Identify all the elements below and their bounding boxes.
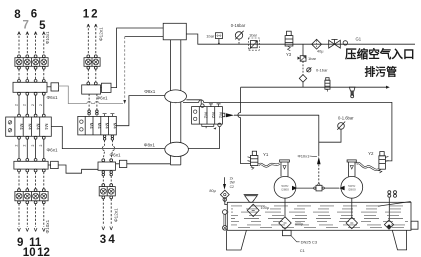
solenoid valve Y1 bbox=[248, 151, 269, 169]
svg-text:M4: M4 bbox=[89, 123, 94, 130]
water pipe frame: top and right edge down to Y2 feed bbox=[183, 100, 392, 161]
main sampling pipe column bbox=[170, 40, 180, 165]
svg-text:M4: M4 bbox=[44, 124, 49, 131]
svg-text:Φ6x1: Φ6x1 bbox=[97, 95, 109, 100]
hose couplings quad circles bbox=[388, 191, 397, 221]
ball valve on air line bbox=[329, 39, 341, 48]
wire M4 output to ellipse1 left, pipe label phi8x1 bbox=[116, 96, 165, 126]
connector circles below manifold2-lower bbox=[102, 171, 113, 187]
water pressure gauge 0-1.6bar bbox=[319, 116, 354, 143]
svg-text:0-1bar: 0-1bar bbox=[316, 67, 328, 72]
dashed drops valve row A to manifold1 bbox=[19, 69, 44, 79]
svg-text:Φ10x1: Φ10x1 bbox=[45, 219, 50, 233]
svg-text:Φ8x1: Φ8x1 bbox=[144, 142, 156, 147]
wire manifold2 box to selector box input1 bbox=[111, 28, 163, 88]
svg-text:2: 2 bbox=[39, 104, 43, 106]
svg-text:2: 2 bbox=[23, 104, 27, 106]
flex hose pump2 to Y2 bbox=[356, 163, 378, 170]
svg-text:M4: M4 bbox=[97, 123, 102, 130]
dashed drops group2 valves to manifold2 bbox=[88, 69, 96, 82]
manifold M2 outlet box bbox=[101, 83, 112, 92]
svg-text:Φ6x1: Φ6x1 bbox=[47, 95, 59, 100]
svg-text:M4: M4 bbox=[27, 124, 32, 131]
svg-text:1bar: 1bar bbox=[308, 56, 317, 61]
pump P2 suction pipe bbox=[347, 160, 356, 177]
valve row B group1: 4 shutoff valves bbox=[15, 189, 48, 204]
svg-text:排污管: 排污管 bbox=[365, 65, 398, 79]
svg-text:M2: M2 bbox=[211, 112, 216, 119]
svg-text:2: 2 bbox=[14, 145, 18, 147]
svg-text:2: 2 bbox=[14, 104, 18, 106]
tubes meter row1 to manifold M2 lower bbox=[18, 139, 46, 161]
compressed air line main bbox=[186, 34, 415, 44]
pressure regulator 1bar branch bbox=[298, 56, 317, 62]
pump2 drop line and filter F3 bbox=[346, 198, 357, 229]
svg-text:Φ8x1: Φ8x1 bbox=[144, 89, 156, 94]
svg-text:/2800: /2800 bbox=[281, 188, 289, 192]
svg-text:8: 8 bbox=[14, 9, 21, 21]
svg-text:12: 12 bbox=[37, 247, 50, 257]
wire M2 row outlet down to ellipse2 right tap bbox=[188, 127, 219, 149]
svg-text:4: 4 bbox=[108, 234, 115, 246]
branch dashed with gauge tap 0-1bar bbox=[303, 61, 328, 75]
flow meter row M2 bbox=[192, 104, 224, 130]
svg-text:Y2: Y2 bbox=[368, 151, 374, 156]
svg-text:DN25 C3: DN25 C3 bbox=[301, 240, 318, 245]
branch to drain line bbox=[302, 44, 304, 56]
M2 row outlet port and arrow to water line bbox=[222, 113, 318, 117]
svg-text:1bar: 1bar bbox=[249, 33, 258, 38]
manifold M1 lower bbox=[14, 161, 48, 172]
manifold M2 lower bbox=[98, 162, 116, 170]
outlet lines group1 bottom with down arrows bbox=[18, 204, 46, 232]
pump1 drop line and filter F2 400u bbox=[279, 198, 304, 229]
junction ellipse node J2 bbox=[165, 142, 189, 156]
sample line 1 with up arrow bbox=[87, 24, 90, 55]
pump1 outlet arrow bbox=[292, 186, 297, 191]
svg-text:C2: C2 bbox=[230, 185, 234, 189]
manifold M2 upper bbox=[82, 82, 101, 94]
svg-text:压缩空气入口: 压缩空气入口 bbox=[345, 47, 415, 61]
svg-text:2: 2 bbox=[31, 145, 35, 147]
tank drain fitting DN25 bbox=[282, 230, 317, 253]
svg-text:Φ6x1: Φ6x1 bbox=[47, 147, 59, 152]
outlet lines 3,4 with down arrows bbox=[102, 199, 113, 230]
svg-text:M2: M2 bbox=[203, 112, 208, 119]
pipe end fitting circle bbox=[343, 41, 347, 45]
tank level gauge bbox=[223, 198, 229, 231]
pressure gauge 0-16bar bbox=[231, 23, 246, 44]
svg-text:6: 6 bbox=[31, 9, 37, 21]
svg-text:M4: M4 bbox=[36, 124, 41, 131]
svg-text:Y3: Y3 bbox=[286, 52, 292, 57]
dashed drops manifold2 to M4 row with connector circles bbox=[88, 94, 98, 115]
selector box U1 bbox=[163, 23, 186, 40]
wire lower manifold1 to group2 lower manifold bbox=[58, 165, 98, 173]
solenoid vent valve on drain line bbox=[325, 78, 330, 92]
pilot component on air line bbox=[206, 33, 222, 45]
svg-text:2: 2 bbox=[23, 145, 27, 147]
svg-text:1bar: 1bar bbox=[206, 34, 215, 39]
svg-text:2: 2 bbox=[31, 104, 35, 106]
tank water level dashes bbox=[231, 206, 408, 228]
dashed return line to group1 with down arrow bbox=[123, 37, 126, 104]
svg-text:0-16bar: 0-16bar bbox=[231, 23, 246, 28]
svg-text:/2800: /2800 bbox=[348, 188, 356, 192]
flow meter row 1 bbox=[6, 117, 52, 139]
sample line 6 with up arrow bbox=[34, 32, 37, 55]
sample line 7 with up arrow bbox=[26, 32, 29, 55]
svg-text:Φ10x1: Φ10x1 bbox=[298, 154, 311, 159]
svg-text:7: 7 bbox=[22, 19, 28, 31]
junction ellipse node J1 bbox=[165, 90, 187, 103]
sample line 2 with up arrow bbox=[94, 24, 97, 55]
svg-text:400μ: 400μ bbox=[295, 222, 304, 226]
drain outlet fitting bbox=[349, 87, 355, 98]
flex hose Y1 to pump1 bbox=[258, 164, 279, 167]
svg-text:100μ: 100μ bbox=[261, 206, 270, 210]
tank leg right bbox=[392, 230, 406, 250]
filter 40u on air line bbox=[312, 39, 324, 53]
pump P2 bbox=[341, 176, 363, 198]
filling funnel on tank bbox=[244, 194, 259, 202]
heater assembly 2x3W bbox=[209, 176, 235, 202]
manifold M1 outlet box bbox=[47, 83, 59, 91]
svg-text:G1: G1 bbox=[356, 36, 362, 41]
valve row group2 top: 2 shutoff valves bbox=[84, 55, 100, 69]
filter F4 with foot valve bbox=[384, 220, 393, 229]
svg-text:3: 3 bbox=[100, 234, 106, 246]
wire meter row1 output to ellipse2 left bbox=[51, 127, 165, 149]
wire manifold2-lower box to main pipe bottom bbox=[127, 163, 171, 165]
svg-text:2: 2 bbox=[39, 145, 43, 147]
svg-text:40μ: 40μ bbox=[317, 50, 323, 54]
dashed drops M4 bottom to manifold2-lower with hop loops bbox=[102, 135, 115, 162]
svg-text:1: 1 bbox=[83, 9, 90, 21]
pump P1 suction pipe bbox=[280, 160, 290, 177]
svg-text:80μ: 80μ bbox=[209, 189, 215, 193]
solenoid valve Y2 bbox=[368, 151, 388, 173]
manifold M2 lower outlet box bbox=[116, 160, 127, 167]
pump2 outlet arrow bbox=[339, 186, 344, 191]
wire ellipse1 right tap to M2 row inlet bbox=[186, 100, 204, 108]
pump P1 bbox=[274, 176, 296, 198]
wire selector box input2 bbox=[125, 36, 164, 38]
svg-text:2: 2 bbox=[91, 9, 97, 21]
drain distribution line with end arrow bbox=[241, 86, 390, 89]
valve row A group1: 4 shutoff valves bbox=[15, 55, 48, 69]
water tank body bbox=[227, 202, 418, 231]
air pipe from frame corner down to Y1 feed (with hop) bbox=[238, 87, 251, 163]
pressure regulator 1bar on air line bbox=[248, 33, 259, 51]
sample line 8 with up arrow bbox=[18, 32, 21, 55]
svg-text:Φ12x1: Φ12x1 bbox=[114, 208, 119, 222]
dashed drops manifold1-lower to valve row B bbox=[19, 172, 44, 189]
tank leg left bbox=[227, 230, 247, 250]
sample line 5 with up arrow bbox=[42, 32, 45, 55]
center water feed with up arrow and label phi10x1 bbox=[298, 115, 321, 185]
flow meter row M4 bbox=[78, 114, 118, 135]
tube number 2 labels row1 lower bbox=[14, 145, 43, 147]
filter F1 100u in tank bbox=[247, 204, 269, 216]
svg-text:Y1: Y1 bbox=[263, 152, 269, 157]
svg-text:5: 5 bbox=[39, 20, 46, 32]
svg-text:Φ12x1: Φ12x1 bbox=[98, 27, 103, 41]
svg-text:0-1.6bar: 0-1.6bar bbox=[338, 116, 354, 121]
tubes manifold1 to meter row1 bbox=[18, 95, 46, 117]
svg-text:Φ10x1: Φ10x1 bbox=[45, 31, 50, 44]
tube number 2 labels row1 bbox=[14, 104, 43, 106]
svg-text:M4: M4 bbox=[19, 124, 24, 131]
valve row group2 bottom: 2 shutoff valves bbox=[99, 187, 115, 199]
manifold M1 upper bbox=[13, 80, 47, 96]
svg-text:Φ6x1: Φ6x1 bbox=[110, 153, 122, 158]
filter diamond on branch bbox=[299, 75, 306, 88]
svg-text:10: 10 bbox=[23, 247, 36, 257]
svg-text:C1: C1 bbox=[300, 248, 306, 253]
manifold M1 lower outlet box bbox=[48, 161, 58, 168]
svg-text:M4: M4 bbox=[105, 123, 110, 130]
solenoid valve Y3 bbox=[285, 31, 293, 57]
check valve between pumps bbox=[297, 185, 339, 191]
gray wire manifold1 outlet to return arrow bbox=[59, 86, 123, 104]
